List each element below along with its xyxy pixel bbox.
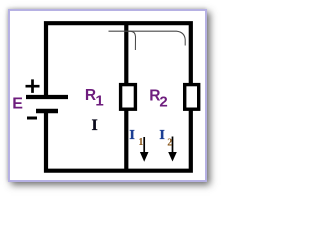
svg-text:2: 2: [159, 93, 167, 110]
resistor R2 box: [185, 85, 199, 110]
svg-text:I: I: [129, 128, 134, 143]
svg-text:1: 1: [138, 137, 143, 148]
svg-text:2: 2: [167, 138, 172, 149]
svg-text:1: 1: [95, 93, 103, 110]
framed white card with lavender border and drop shadow: [8, 9, 207, 182]
arrow for current I2: [172, 137, 174, 154]
wire: outer circuit loop (top, right, bottom, partial left with battery gap): [46, 23, 191, 171]
svg-text:I: I: [159, 128, 164, 143]
battery E positive long plate: [26, 95, 68, 99]
svg-text:E: E: [12, 96, 23, 113]
svg-text:I: I: [92, 117, 98, 134]
wire: middle branch upper segment: [124, 23, 128, 86]
resistor R1 box: [121, 85, 136, 110]
annotation curve: current into R1 branch (short hook): [128, 31, 135, 50]
minus sign of battery: [27, 117, 37, 120]
arrow for current I1: [143, 137, 145, 154]
plus sign of battery: [26, 79, 40, 93]
battery E negative short plate: [36, 109, 58, 113]
wire: middle branch lower segment: [124, 108, 128, 171]
annotation curve: current into R2 branch (long hook): [109, 31, 186, 45]
